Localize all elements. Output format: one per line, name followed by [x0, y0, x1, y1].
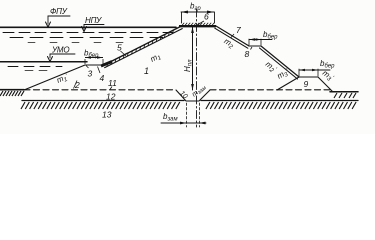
svg-text:9: 9 [304, 79, 309, 89]
svg-text:2: 2 [74, 80, 80, 90]
svg-text:7: 7 [236, 25, 241, 35]
svg-text:12: 12 [106, 92, 116, 102]
svg-text:НПУ: НПУ [85, 16, 102, 25]
svg-text:6: 6 [204, 12, 209, 22]
svg-text:ФПУ: ФПУ [50, 7, 68, 16]
svg-text:5: 5 [117, 43, 122, 53]
svg-text:4: 4 [100, 73, 105, 83]
svg-text:11: 11 [108, 78, 117, 88]
svg-text:1: 1 [144, 66, 149, 76]
svg-text:8: 8 [245, 49, 250, 59]
svg-text:13: 13 [102, 110, 112, 120]
svg-text:УМО: УМО [51, 46, 69, 55]
svg-text:3: 3 [88, 69, 93, 79]
